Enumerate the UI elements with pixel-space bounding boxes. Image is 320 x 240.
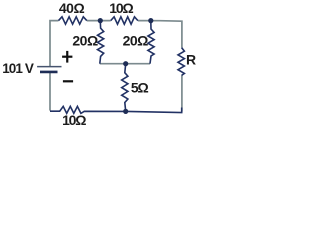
svg-text:10Ω: 10Ω <box>109 0 133 16</box>
svg-text:5Ω: 5Ω <box>131 79 149 95</box>
svg-text:20Ω: 20Ω <box>123 33 149 49</box>
svg-text:101 V: 101 V <box>2 61 34 76</box>
svg-text:R: R <box>186 51 196 67</box>
svg-text:20Ω: 20Ω <box>72 33 98 49</box>
svg-text:10Ω: 10Ω <box>62 112 86 128</box>
svg-text:40Ω: 40Ω <box>59 0 85 16</box>
